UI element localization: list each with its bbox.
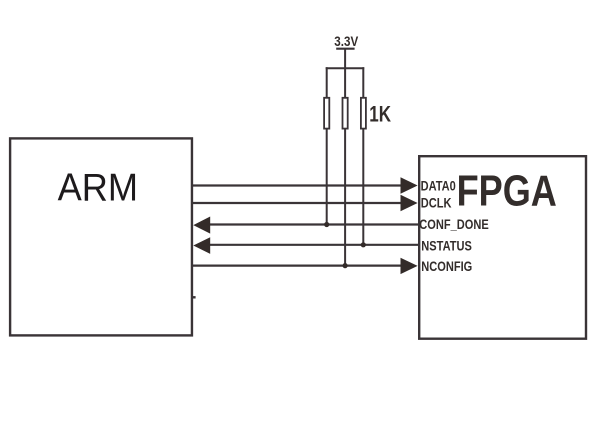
arrowhead NSTATUS into ARM [193, 237, 210, 254]
arrowhead NCONFIG into FPGA [401, 258, 418, 274]
svg-text:ARM: ARM [58, 166, 138, 209]
pin label NSTATUS [421, 238, 472, 254]
wire rail to R1 [326, 67, 328, 97]
pin label DATA0 [421, 178, 456, 194]
pin label DCLK [421, 195, 452, 211]
FPGA block U2 [419, 156, 586, 339]
stub wire on ARM right edge [192, 296, 196, 298]
FPGA label [457, 168, 557, 216]
wire R2 to NCONFIG net [344, 130, 346, 266]
svg-text:NCONFIG: NCONFIG [421, 259, 472, 275]
pin label NCONFIG [421, 259, 472, 275]
wire from 3.3V bar to distribution rail [344, 49, 346, 68]
junction CONF_DONE pull-up [324, 222, 329, 227]
wire rail to R2 [344, 68, 346, 97]
svg-text:CONF_DONE: CONF_DONE [419, 217, 488, 233]
resistor R2 [343, 98, 348, 129]
junction NCONFIG pull-up [343, 263, 348, 268]
3.3V rail bar [336, 48, 354, 50]
ARM label [58, 166, 138, 209]
pin label CONF_DONE [419, 217, 488, 233]
arrowhead CONF_DONE into ARM [193, 217, 210, 234]
wire DCLK net [192, 202, 404, 204]
1K value label [369, 103, 391, 128]
svg-text:1K: 1K [369, 103, 391, 128]
wire R3 to NSTATUS net [362, 130, 364, 245]
ARM block U1 [10, 138, 192, 335]
wire CONF_DONE net [207, 223, 419, 225]
wire NCONFIG net [192, 265, 404, 267]
resistor R3 [361, 98, 366, 129]
wire rail to R3 [362, 67, 364, 97]
svg-text:DCLK: DCLK [421, 195, 452, 211]
arrowhead DATA0 into FPGA [401, 177, 418, 193]
junction NSTATUS pull-up [361, 242, 366, 247]
svg-text:DATA0: DATA0 [421, 178, 456, 194]
wire NSTATUS net [207, 244, 419, 246]
arrowhead DCLK into FPGA [401, 195, 418, 211]
resistor R1 [324, 98, 329, 129]
svg-text:3.3V: 3.3V [334, 33, 358, 49]
wire DATA0 net [192, 184, 404, 186]
distribution rail wire [326, 67, 365, 69]
3.3V power label [334, 33, 358, 49]
wire R1 to CONF_DONE net [326, 130, 328, 225]
svg-text:FPGA: FPGA [457, 168, 557, 216]
svg-text:NSTATUS: NSTATUS [421, 238, 472, 254]
